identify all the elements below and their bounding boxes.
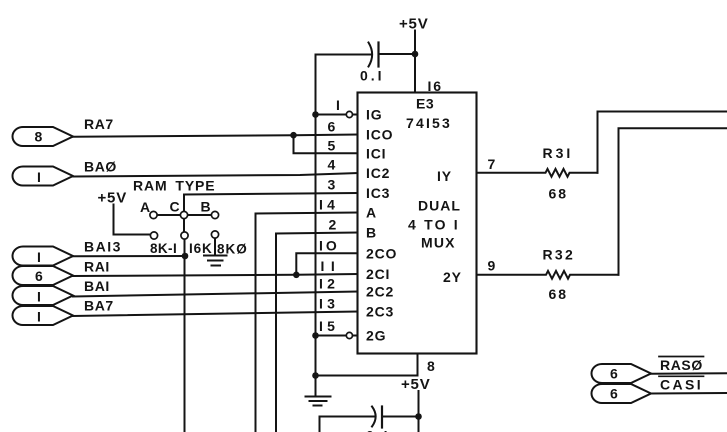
connector tag 1 (BA7) [13,306,74,325]
svg-text:I6: I6 [428,78,443,94]
wire 2G [316,335,347,337]
svg-text:3: 3 [328,177,336,193]
svg-text:IY: IY [437,168,452,184]
wire A-select vertical (pin 14) [256,213,358,432]
svg-text:2C3: 2C3 [366,304,394,320]
wire bottom cap left down [319,417,321,432]
connector tag 6 (RAS0) [592,364,652,383]
svg-text:A: A [140,199,150,215]
svg-text:RA7: RA7 [84,116,114,132]
svg-text:R3I: R3I [543,145,574,161]
svg-text:68: 68 [549,286,569,302]
svg-text:8KØ: 8KØ [217,242,248,257]
svg-text:2: 2 [329,217,337,233]
svg-text:R32: R32 [543,247,576,263]
wire +5V to 8K-1 post [114,205,151,235]
svg-text:BAI3: BAI3 [84,239,122,255]
wire BA1 to 2C2 pin 12 [73,292,358,297]
svg-text:6: 6 [610,366,618,382]
jumper post 8K-1 [150,232,157,239]
svg-text:2G: 2G [366,328,386,344]
wire 16K post down (BA13 net) [184,235,186,432]
svg-text:7: 7 [488,156,496,172]
bubble pin 15 2G [346,332,352,338]
jumper post 8K0 [211,231,218,238]
svg-text:5: 5 [328,138,336,154]
power +5V top [399,16,429,33]
connector tag 1 (BA1) [13,286,74,305]
svg-text:ICO: ICO [366,127,393,143]
svg-text:0.I: 0.I [360,68,385,84]
resistor R31 [477,145,598,202]
wire 2Y output [619,128,727,274]
wire pin 8 to ground bus [316,354,418,376]
svg-text:RASØ: RASØ [660,357,703,373]
svg-text:DUAL: DUAL [418,198,461,214]
svg-text:B: B [201,199,211,215]
wire RA1 branch to 2C0 pin 10 [296,253,357,274]
resistor R32 [477,247,619,303]
connector tag 6 (CAS1) [592,384,652,403]
svg-text:+5V: +5V [401,376,431,393]
ground main [306,397,331,406]
svg-text:8K-I: 8K-I [150,241,177,256]
svg-text:B: B [366,225,377,241]
svg-text:2Y: 2Y [443,269,462,285]
label CAS1 [659,376,704,392]
wire +5V to pin 16 [414,31,416,93]
wire B-select vertical (pin 2) [276,233,358,432]
junction dot pin8/ground bus [312,372,319,379]
wire jumper C down [183,215,185,235]
svg-text:E3: E3 [416,96,434,112]
svg-text:6: 6 [35,268,43,284]
svg-text:+5V: +5V [98,190,128,207]
svg-text:9: 9 [488,258,496,274]
junction dot RA7 branch [290,132,297,139]
svg-text:4: 4 [328,157,336,173]
svg-text:I: I [336,97,340,113]
wire 1G [316,114,347,116]
label RAS0 [659,357,704,374]
svg-text:68: 68 [549,186,569,202]
svg-text:I: I [37,289,41,305]
svg-text:I3: I3 [319,296,339,312]
wire BA7 to 2C3 pin 13 [73,312,358,317]
capacitor 0.1 top [316,43,416,84]
wire RA7 to 1C0 pin 6 [73,135,358,137]
svg-text:RAI: RAI [84,259,110,275]
junction dot 1G [312,111,319,118]
junction dot +5V / C1 [412,51,419,58]
wire RA1 to 2C1 pin 11 [73,274,358,276]
wire +5V bottom vertical [418,391,420,432]
jumper post C [180,211,187,218]
wire RA7 branch to 1C1 pin 5 [294,135,358,153]
connector tag 1 (BA13) [13,247,74,266]
svg-text:BAØ: BAØ [84,159,117,175]
wire ground bus vertical (1G/2G/pin8 to ground) [315,55,317,397]
junction dot BA13/16K [182,253,189,260]
wire 8K0 post to ground [214,235,216,255]
svg-text:A: A [366,205,377,221]
svg-text:IC2: IC2 [366,165,390,181]
svg-text:0.I: 0.I [366,428,391,432]
capacitor 0.1 bottom [320,407,419,432]
svg-text:I: I [37,309,41,325]
connector tag 8 (RA7) [13,127,74,146]
svg-text:RAM TYPE: RAM TYPE [133,178,216,194]
connector tag 6 (RA1) [13,266,74,285]
wire BA0 to 1C2 pin 4 [73,173,358,177]
svg-text:I4: I4 [319,197,339,213]
svg-text:2C2: 2C2 [366,284,394,300]
svg-text:IG: IG [366,107,382,123]
jumper post A [150,211,157,218]
wire RAS0 [651,372,727,374]
junction dot +5V bottom [415,413,422,420]
svg-text:8: 8 [35,129,43,145]
junction dot RA1 branch [293,272,300,279]
svg-text:4 TO I: 4 TO I [408,217,460,233]
svg-text:C: C [170,199,180,215]
svg-text:I2: I2 [319,276,339,292]
svg-text:II: II [321,258,342,274]
svg-text:8: 8 [427,358,435,374]
svg-text:I5: I5 [319,318,339,334]
svg-text:I: I [37,249,41,265]
wire BA13 to 16K post [73,255,185,257]
svg-text:I6K: I6K [189,241,213,256]
svg-text:CASI: CASI [660,377,703,393]
wire 1Y output [598,112,727,173]
svg-text:6: 6 [328,119,336,135]
svg-text:BA7: BA7 [84,298,114,314]
svg-text:2CO: 2CO [366,245,397,261]
connector tag 1 (BA0) [13,167,74,186]
bubble pin 1 1G [346,111,352,117]
jumper post 16K [181,232,188,239]
svg-text:6: 6 [610,386,618,402]
svg-text:IC3: IC3 [366,185,390,201]
wire CAS1 [651,392,727,395]
IC inside labels [366,96,462,344]
wire jumper A-C-B [154,214,216,216]
svg-text:MUX: MUX [421,235,456,251]
svg-text:I: I [37,169,41,185]
IC E3 74153 body [358,93,477,354]
svg-text:IO: IO [319,238,340,254]
wire jumper C to 1C3 pin 3 [184,193,358,211]
svg-text:ICI: ICI [366,145,386,161]
svg-text:2CI: 2CI [366,266,390,282]
svg-text:+5V: +5V [399,16,429,33]
ground jumper [204,256,227,266]
junction dot 2G [312,332,319,339]
svg-text:74I53: 74I53 [406,115,452,131]
svg-text:BAI: BAI [84,278,110,294]
jumper post B [211,211,218,218]
